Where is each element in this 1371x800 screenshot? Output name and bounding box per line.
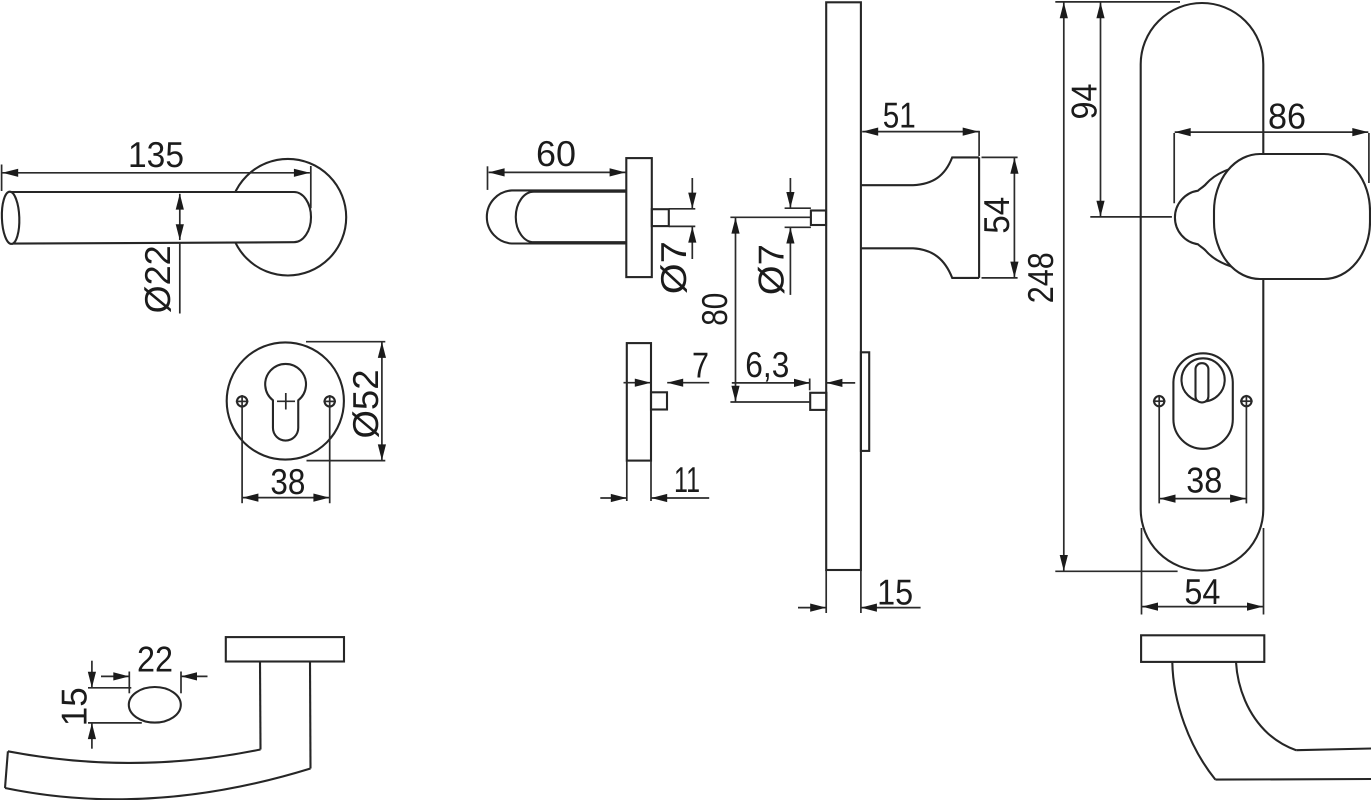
dimension 94 line	[1100, 2, 1102, 217]
lever bar	[11, 192, 312, 244]
dimension 86 line	[1175, 131, 1369, 133]
label 15 left rotated	[54, 687, 95, 726]
rose circle (cylinder rose)	[227, 342, 344, 459]
cylinder escutcheon stadium	[1173, 353, 1232, 449]
dimension 94 leader to knob neck	[1090, 216, 1172, 218]
label 86	[1268, 96, 1306, 137]
label 80 rotated	[694, 293, 735, 326]
arrow 38 left	[242, 494, 258, 502]
neck left edge curve	[1172, 662, 1215, 780]
label 22	[137, 639, 173, 680]
label 94 rotated	[1064, 84, 1105, 120]
dimension 54 side extension lines	[982, 157, 1018, 278]
svg-text:Ø52: Ø52	[345, 370, 386, 439]
arrow 94 down	[1096, 201, 1104, 217]
grip outer contour	[487, 190, 626, 243]
dimension d7 lower line and arrow	[688, 227, 696, 259]
arrow 51 left	[862, 128, 878, 136]
svg-text:38: 38	[1186, 460, 1222, 501]
arrow 248 down	[1060, 555, 1068, 571]
svg-text:54: 54	[976, 197, 1017, 234]
dimension 80 line	[735, 218, 737, 402]
dimension 248 line	[1063, 2, 1065, 571]
svg-text:135: 135	[128, 134, 184, 175]
dimension 22 extension lines	[129, 672, 181, 694]
dimension d22 line between bar edges	[179, 194, 181, 240]
rose top view rect right	[1141, 635, 1264, 662]
plate front stadium outline	[1141, 3, 1264, 571]
knob front	[1214, 154, 1370, 279]
spindle cross mark	[277, 393, 295, 410]
plate side rect	[826, 2, 861, 570]
label 54 front	[1184, 571, 1220, 612]
svg-text:60: 60	[536, 133, 576, 174]
spindle pin side	[652, 209, 669, 226]
dimension 22 left tail and arrow	[101, 672, 129, 680]
dimension 7 left tail and arrow	[624, 379, 651, 387]
dimension 38 line	[242, 497, 329, 499]
label 51	[883, 95, 916, 136]
dimension 135 line	[2, 172, 310, 174]
dimension 11 left tail and arrow	[600, 494, 627, 502]
dimension 22 right tail and arrow	[181, 672, 208, 680]
dimension 15 left extension lines	[88, 688, 142, 723]
arrow d22 up	[176, 194, 184, 210]
dimension 60 line	[489, 171, 626, 173]
dimension 38 right line	[1160, 498, 1247, 500]
dimension 6,3 tail and right-pointing arrow	[732, 379, 810, 387]
dimension 135 extension tick left	[1, 165, 3, 192]
arrow 248 up	[1060, 2, 1068, 18]
label 38	[270, 461, 305, 502]
arrow 54 front right	[1247, 603, 1263, 611]
dimension 11 right tail and arrow	[651, 494, 709, 502]
keyway slot	[1196, 363, 1209, 402]
grip bottom edge line	[1215, 778, 1371, 781]
lower fixing pin on plate	[810, 393, 826, 410]
label 135	[128, 134, 184, 175]
label d7 rotated	[653, 241, 694, 294]
label 11	[674, 459, 700, 500]
svg-text:248: 248	[1020, 252, 1061, 303]
grip end cap line	[5, 751, 8, 788]
neck left edge	[259, 662, 262, 750]
arrow 135 right	[294, 169, 310, 177]
svg-text:54: 54	[1184, 571, 1220, 612]
svg-text:11: 11	[674, 459, 700, 500]
dimension 80 leader bottom	[730, 401, 810, 403]
dimension 86 extension right	[1368, 133, 1370, 183]
arrow 60 right	[610, 168, 626, 176]
label 7	[692, 344, 709, 385]
arrow 80 down	[731, 386, 739, 402]
dimension 15 left upper line and arrow	[88, 661, 96, 688]
grip section ellipse	[129, 687, 181, 723]
rose plate side rect	[626, 158, 652, 277]
arrow 38 right	[313, 494, 329, 502]
dimension 51 extension right	[978, 131, 980, 156]
neck right edge	[309, 662, 312, 769]
label 54 side rotated	[976, 197, 1017, 234]
label 60	[536, 133, 576, 174]
label 38 right	[1186, 460, 1222, 501]
rose circle (lever)	[230, 159, 347, 276]
dimension d7 right upper line and arrow	[786, 178, 794, 208]
label 6,3	[745, 344, 789, 385]
arrow 38 right-figure left	[1160, 495, 1176, 503]
dimension 15 bottom extension lines	[826, 570, 861, 613]
dimension 38 right extension lines	[1159, 408, 1246, 504]
dimension 7 right tail and arrow	[667, 379, 709, 387]
rose plate side rect lower	[627, 343, 651, 461]
arrow 54 side down	[1010, 262, 1018, 278]
dimension 54 front line	[1142, 606, 1263, 608]
svg-text:86: 86	[1268, 96, 1306, 137]
svg-text:6,3: 6,3	[745, 344, 789, 385]
label d7 right rotated	[750, 244, 791, 295]
label 248 rotated	[1020, 252, 1061, 303]
euro profile keyhole	[265, 364, 306, 441]
svg-text:15: 15	[877, 572, 913, 613]
svg-text:22: 22	[137, 639, 173, 680]
knob profile bottom	[861, 248, 979, 278]
arrow 135 left	[2, 169, 18, 177]
label d52 rotated	[345, 370, 386, 439]
rose top view rect left	[226, 637, 344, 661]
label 15	[877, 572, 913, 613]
screw hole left	[236, 395, 249, 408]
neck right edge curve	[1236, 662, 1296, 750]
arrow d52 down	[378, 444, 386, 460]
arrow 54 front left	[1142, 603, 1158, 611]
knob face line	[978, 157, 980, 278]
screw hole right front	[1240, 395, 1253, 408]
dimension d7 upper line and arrow	[688, 178, 696, 209]
svg-text:38: 38	[270, 461, 305, 502]
arrow 60 left	[489, 168, 505, 176]
cylinder protrusion side	[861, 352, 869, 451]
dimension 15 left tail and arrow	[798, 604, 826, 612]
svg-text:Ø7: Ø7	[653, 241, 694, 294]
arrow d52 up	[378, 342, 386, 358]
svg-text:94: 94	[1064, 84, 1105, 120]
extension lines below rose	[627, 461, 651, 501]
screw hole right	[323, 395, 336, 408]
grip bottom edge arc	[5, 769, 311, 800]
dimension 51 line	[862, 131, 979, 133]
arrow 86 left	[1175, 128, 1191, 136]
arrow 80 up	[731, 218, 739, 234]
dimension d22 tail below	[179, 243, 181, 314]
dimension 80 leader top	[730, 216, 811, 218]
arrow d22 down	[176, 224, 184, 240]
arrow 54 side up	[1010, 158, 1018, 174]
arrow 38 right-figure right	[1230, 495, 1246, 503]
dimension 248 bottom leader	[1055, 570, 1177, 572]
arrow 86 right	[1352, 128, 1368, 136]
svg-text:Ø22: Ø22	[137, 245, 178, 313]
screw hole left front	[1153, 395, 1166, 408]
upper spindle pin on plate	[811, 211, 826, 226]
arrow 51 right	[963, 128, 979, 136]
dimension d7 right lower line and arrow	[786, 228, 794, 295]
dimension 248 top leader	[1055, 1, 1180, 3]
dimension d52 line	[381, 342, 383, 461]
svg-text:7: 7	[692, 344, 709, 385]
label d22 rotated	[137, 245, 178, 313]
dimension d7 leader lines from pin	[669, 209, 696, 227]
dimension 60 extension tick	[487, 166, 489, 190]
svg-text:80: 80	[694, 293, 735, 326]
dimension 38 extension lines from screws	[242, 408, 330, 504]
dimension 15 right tail and arrow	[861, 604, 921, 612]
dimension d52 extension bottom	[307, 460, 386, 462]
cylinder core circle	[1182, 358, 1225, 401]
grip inner contour	[516, 192, 627, 243]
knob profile top	[861, 157, 979, 185]
lever bar end face ellipse	[1, 191, 20, 244]
dimension 6,3 tick at pin edge	[809, 379, 811, 391]
knob neck collar	[1175, 164, 1252, 271]
grip top edge arc	[8, 750, 261, 763]
grip top edge line	[1296, 749, 1371, 751]
dimension 54 front extension lines	[1142, 528, 1264, 615]
dimension 15 left lower line and arrow	[88, 723, 96, 749]
dimension 86 extension left	[1173, 133, 1175, 203]
svg-text:15: 15	[54, 687, 95, 726]
dimension 6,3 left-pointing arrow at plate face	[826, 379, 855, 387]
dimension d52 extension top	[306, 341, 385, 343]
dimension 135 extension line right	[310, 166, 312, 208]
dimension 54 side line	[1013, 158, 1015, 278]
spindle pin lower	[651, 392, 667, 409]
arrow 94 up	[1096, 2, 1104, 18]
svg-text:51: 51	[883, 95, 916, 136]
dimension d7 right leaders	[785, 208, 811, 227]
svg-text:Ø7: Ø7	[750, 244, 791, 295]
